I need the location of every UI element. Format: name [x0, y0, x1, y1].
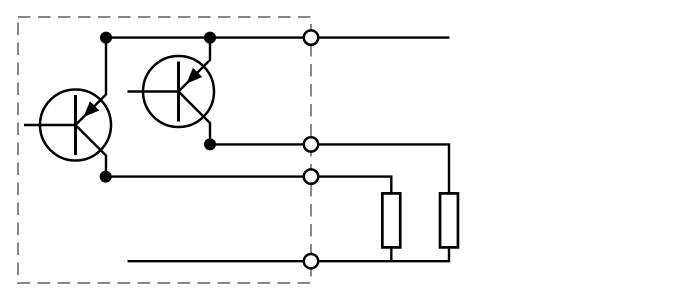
wire: R1 bottom stub [390, 247, 392, 261]
terminal 1 [304, 30, 318, 44]
transistor Q1 [24, 38, 111, 177]
terminal 2 [304, 137, 318, 151]
resistor R1 [382, 193, 400, 247]
Q2 body circle [143, 56, 214, 127]
Q1 collector lead [76, 125, 107, 177]
Q2 emitter lead [179, 38, 211, 92]
junction dot: Q1 collector on middle wire [100, 171, 112, 183]
junction dot: Q2 emitter on top rail [204, 32, 216, 44]
Q1 PNP emitter arrow [83, 101, 99, 117]
Q1 body circle [40, 90, 111, 161]
dashed enclosure box [18, 17, 311, 283]
terminal 3 [304, 169, 318, 183]
wire: bottom rail joining resistor bottoms [128, 247, 450, 261]
Q1 base lead [24, 124, 76, 126]
junction dot: Q2 collector on upper-middle wire [204, 138, 216, 150]
wire top rail [106, 36, 450, 38]
wire: Q2 collector rail to R2 top [210, 144, 449, 194]
resistor R2 [440, 193, 458, 247]
wire: Q1 collector rail to R1 top [106, 177, 392, 194]
transistor Q2 [128, 38, 215, 145]
Q2 base bar [177, 62, 180, 122]
Q2 PNP emitter arrow [186, 68, 202, 84]
junction dot: Q1 emitter on top rail [100, 32, 112, 44]
Q2 base lead [128, 90, 179, 92]
Q1 emitter lead [76, 38, 107, 125]
terminal 4 [304, 254, 318, 268]
Q2 collector lead [179, 92, 211, 145]
Q1 base bar [74, 95, 77, 155]
